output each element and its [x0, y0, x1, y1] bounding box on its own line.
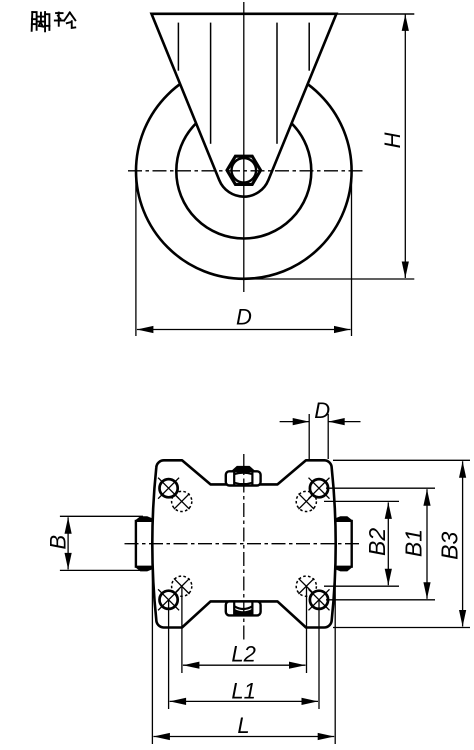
svg-text:D: D — [314, 398, 330, 423]
svg-text:L1: L1 — [231, 679, 255, 704]
svg-text:B1: B1 — [401, 529, 427, 557]
svg-text:L: L — [237, 713, 249, 738]
svg-text:D: D — [236, 305, 252, 330]
svg-text:B3: B3 — [436, 532, 462, 560]
svg-text:B: B — [46, 535, 71, 550]
svg-text:H: H — [380, 132, 405, 148]
svg-text:L2: L2 — [231, 642, 255, 667]
svg-text:B2: B2 — [364, 528, 390, 556]
